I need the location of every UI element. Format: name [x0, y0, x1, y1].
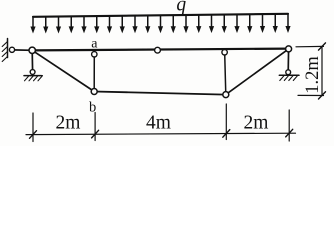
left wall hatching	[2, 42, 7, 62]
bottom dimension line	[26, 133, 296, 134]
height dim slash top	[319, 43, 326, 50]
mid-span hinge	[155, 47, 161, 53]
right support ground hatching	[280, 75, 298, 80]
right support node	[286, 46, 292, 52]
left support ground hatching	[25, 76, 43, 81]
left main node	[29, 47, 35, 53]
wall pin	[9, 47, 14, 52]
vertical member a-b	[93, 52, 95, 92]
node b	[91, 89, 97, 95]
dimension extension line x=289	[288, 110, 290, 141]
dimension extension line x=95	[94, 113, 96, 141]
dimension slash tick at 289	[286, 129, 293, 137]
left support ground	[24, 75, 42, 77]
right vertical member	[225, 50, 226, 95]
dimension slash tick at 95	[92, 130, 99, 138]
distributed load q: top bar	[33, 14, 288, 17]
height dim slash bottom	[319, 92, 326, 99]
svg-text:a: a	[91, 37, 98, 52]
svg-text:q: q	[176, 0, 186, 15]
height dimension line	[321, 47, 323, 96]
dimension slash tick at 226	[223, 130, 230, 138]
svg-text:2m: 2m	[56, 112, 81, 133]
bottom chord b to right	[94, 92, 226, 95]
right vertical top hinge	[222, 50, 227, 55]
right support ground	[279, 74, 299, 76]
diagonal member right	[226, 49, 289, 95]
right support pin	[286, 70, 291, 75]
node a hinge	[92, 52, 97, 57]
svg-text:2m: 2m	[244, 112, 269, 133]
svg-text:1.2m: 1.2m	[303, 56, 323, 94]
bottom right node	[223, 92, 229, 98]
right vertical link member	[287, 49, 289, 72]
dimension extension line x=226	[225, 104, 227, 140]
left wall	[7, 39, 9, 58]
height dim bottom extension	[298, 94, 324, 96]
distributed load q: arrows	[30, 14, 290, 34]
beam top chord	[32, 49, 288, 51]
dimension slash tick at 33	[30, 131, 37, 139]
diagonal member left (node-b)	[32, 50, 94, 91]
horizontal link member	[12, 49, 32, 51]
left vertical link member	[31, 50, 33, 72]
dimension extension line x=33	[32, 113, 34, 142]
svg-text:4m: 4m	[146, 112, 171, 133]
left support pin	[30, 70, 35, 75]
height dim top extension	[296, 45, 324, 47]
